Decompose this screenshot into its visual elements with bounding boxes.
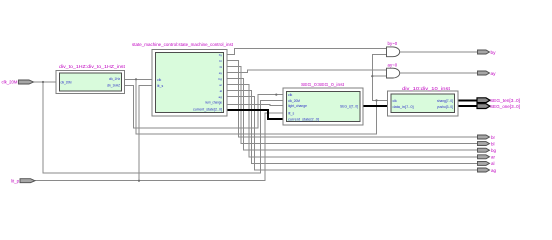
svg-text:lit_p: lit_p (11, 178, 19, 183)
svg-text:yushu[3..0]: yushu[3..0] (437, 105, 453, 109)
svg-text:current_state[2..0]: current_state[2..0] (193, 107, 222, 111)
svg-text:div_to_1HZ:div_to_1HZ_inst: div_to_1HZ:div_to_1HZ_inst (59, 64, 126, 69)
svg-text:ag: ag (219, 95, 223, 99)
svg-text:ag: ag (491, 168, 497, 173)
svg-text:SEG_ten[3..0]: SEG_ten[3..0] (490, 98, 520, 103)
svg-text:lit_s: lit_s (157, 84, 163, 88)
svg-text:ay: ay (491, 72, 497, 77)
svg-text:div_10:div_10_inst: div_10:div_10_inst (402, 86, 451, 91)
svg-text:al: al (220, 89, 223, 93)
svg-text:ay: ay (219, 71, 223, 75)
svg-text:clk: clk (157, 78, 162, 82)
svg-text:al: al (491, 161, 495, 166)
svg-text:SEG_0:SEG_0_inst: SEG_0:SEG_0_inst (301, 82, 345, 87)
svg-text:by: by (491, 50, 497, 56)
svg-text:ar: ar (491, 155, 496, 160)
svg-text:clk_1Hz: clk_1Hz (109, 77, 120, 81)
svg-text:ar: ar (219, 83, 222, 87)
svg-text:br: br (219, 59, 222, 63)
svg-text:shang[7..0]: shang[7..0] (437, 99, 453, 103)
svg-text:ay~0: ay~0 (388, 63, 398, 68)
svg-text:num_change: num_change (205, 101, 222, 105)
svg-text:bg: bg (491, 148, 497, 153)
svg-text:lit_s: lit_s (288, 111, 294, 115)
svg-text:br: br (491, 135, 496, 140)
svg-text:clk: clk (288, 93, 293, 97)
svg-text:current_state[2..0]: current_state[2..0] (288, 118, 319, 122)
svg-text:bl: bl (220, 65, 223, 69)
svg-text:by~0: by~0 (388, 41, 398, 46)
svg-text:SEG_one[3..0]: SEG_one[3..0] (490, 104, 520, 109)
svg-text:clk_20M: clk_20M (61, 80, 72, 84)
svg-text:clk: clk (393, 99, 398, 103)
svg-text:state_machine_control:state_ma: state_machine_control:state_machine_cont… (132, 42, 234, 47)
svg-text:clk_1kHZ: clk_1kHZ (107, 84, 121, 88)
svg-text:SEG_s[7..0]: SEG_s[7..0] (340, 104, 358, 108)
svg-text:by: by (219, 53, 223, 57)
svg-text:data_in[7..0]: data_in[7..0] (393, 105, 414, 109)
svg-text:clk_20M: clk_20M (1, 80, 17, 85)
svg-text:bl: bl (491, 141, 495, 146)
svg-text:bg: bg (219, 77, 223, 81)
svg-text:light_change: light_change (288, 104, 307, 108)
svg-text:clk_20M: clk_20M (288, 99, 300, 103)
